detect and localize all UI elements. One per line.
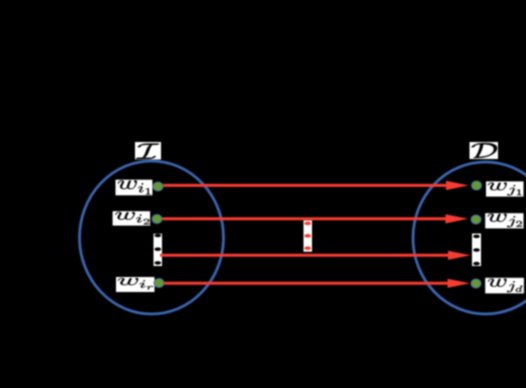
node w_j2 xyxy=(471,215,481,224)
set label I xyxy=(135,142,161,160)
set label D xyxy=(470,142,499,159)
set D ellipse (right, clipped) xyxy=(413,162,526,314)
node label w_i1 xyxy=(116,180,153,196)
node label w_jd xyxy=(485,278,524,294)
edge vdots -> vdots xyxy=(160,251,471,260)
node label w_j1 xyxy=(486,181,524,196)
node label w_i2 xyxy=(113,211,151,225)
vdots (right column) xyxy=(472,234,481,267)
node w_ir xyxy=(154,278,164,287)
edge w_ir -> w_jd xyxy=(163,279,470,288)
node w_i1 xyxy=(153,182,163,191)
node w_i2 xyxy=(152,214,162,223)
set I ellipse (left) xyxy=(80,161,224,314)
vdots (middle, red) xyxy=(304,221,313,252)
node label w_ir xyxy=(116,277,155,292)
node w_jd xyxy=(471,279,481,288)
node w_j1 xyxy=(472,181,482,190)
edge w_i2 -> w_j2 xyxy=(162,214,468,223)
edge w_i1 -> w_j1 xyxy=(163,181,469,190)
node label w_j2 xyxy=(485,213,523,228)
vdots (left column) xyxy=(154,234,163,266)
